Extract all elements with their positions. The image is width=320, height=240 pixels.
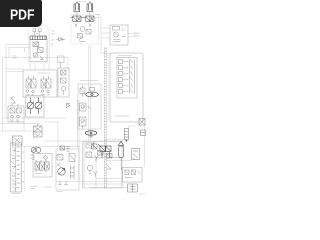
wire	[96, 158, 122, 188]
marks	[31, 155, 35, 160]
swing valve box	[33, 154, 52, 178]
wire	[128, 34, 137, 37]
pressure switch	[132, 149, 140, 160]
marks	[57, 163, 61, 168]
dashed edge	[107, 53, 109, 122]
valve	[86, 152, 120, 158]
breaker unit	[125, 126, 136, 142]
check valve	[67, 104, 71, 108]
valve	[69, 154, 75, 162]
valve	[80, 85, 85, 97]
wire	[104, 139, 126, 141]
label	[38, 72, 50, 74]
svg-text:PDF: PDF	[10, 6, 35, 23]
label	[13, 48, 25, 58]
valve	[60, 146, 70, 151]
valve stack	[12, 146, 25, 190]
wire	[56, 179, 128, 188]
wire	[6, 69, 23, 72]
valve	[86, 143, 94, 148]
pump	[61, 86, 65, 94]
pump	[35, 98, 42, 114]
valve section	[26, 76, 36, 95]
valve	[10, 104, 22, 122]
wire stubs	[30, 64, 49, 71]
valve	[98, 151, 104, 156]
solenoid manifold inner box	[117, 58, 137, 99]
main pump box	[26, 96, 45, 118]
label	[134, 33, 140, 35]
regulator	[11, 97, 16, 104]
marks	[52, 31, 55, 46]
pump	[80, 117, 87, 129]
valve pair	[98, 144, 111, 158]
solenoid valve	[81, 16, 94, 22]
wire	[78, 100, 80, 180]
label	[78, 2, 101, 15]
wire	[2, 58, 4, 132]
valve	[139, 119, 145, 126]
wire	[89, 46, 91, 141]
solenoid manifold outer box	[110, 53, 143, 122]
relief valve column	[58, 68, 69, 97]
valve	[38, 48, 44, 53]
wire	[5, 45, 7, 119]
bus ladder	[104, 47, 106, 189]
valve	[107, 154, 113, 159]
label	[115, 115, 129, 117]
wire	[22, 146, 80, 148]
valve	[33, 42, 39, 47]
wire	[1, 118, 67, 137]
top-right valve unit	[110, 25, 128, 45]
valve row	[35, 156, 49, 172]
solenoid stack	[119, 60, 135, 94]
wire	[3, 58, 69, 71]
filter	[34, 124, 43, 138]
terminal box	[123, 168, 143, 183]
pump unit box	[30, 40, 47, 62]
label	[57, 191, 63, 193]
wire	[9, 48, 30, 58]
pilot pump box	[8, 106, 24, 122]
gear pump pair	[31, 147, 41, 153]
valve section	[41, 76, 51, 95]
oil cooler box	[78, 84, 101, 129]
valve	[57, 155, 63, 161]
fan impeller	[86, 88, 99, 97]
dashed enclosure	[29, 26, 49, 63]
valve	[92, 142, 98, 150]
wire	[6, 44, 30, 46]
tank symbol	[58, 181, 67, 185]
valve	[61, 78, 67, 83]
dashed line	[49, 28, 51, 64]
motor	[58, 168, 65, 175]
pump	[80, 103, 91, 111]
label	[12, 193, 20, 195]
wire	[44, 140, 130, 142]
label	[118, 55, 132, 57]
tank unit	[128, 184, 138, 192]
label	[30, 174, 43, 189]
wire	[44, 122, 58, 147]
pump	[33, 53, 43, 60]
junction box	[58, 56, 65, 68]
solenoid valve	[71, 16, 81, 22]
control valve bank	[23, 70, 57, 97]
wire	[95, 18, 111, 54]
relief manifold	[11, 143, 22, 192]
cylinder	[87, 2, 93, 16]
valve internals	[113, 27, 126, 42]
arrow marks	[94, 155, 99, 162]
cylinder	[74, 2, 80, 16]
travel motor box	[56, 149, 79, 190]
dashed enclosure	[71, 15, 99, 45]
fan impeller	[85, 131, 97, 138]
rotary joint box	[83, 142, 123, 189]
marks	[93, 165, 112, 177]
pilot valve cluster	[75, 24, 92, 42]
check valve	[57, 38, 66, 42]
cylinder	[71, 165, 75, 179]
manifold	[30, 36, 47, 40]
label	[80, 80, 98, 82]
small comp	[141, 130, 146, 136]
accumulator	[118, 141, 124, 170]
gauge	[33, 29, 41, 36]
label	[44, 187, 145, 194]
terminal marks	[125, 170, 140, 178]
wire	[106, 160, 132, 162]
PDF badge	[0, 0, 42, 27]
motor	[87, 165, 92, 174]
label	[31, 24, 36, 26]
pump	[27, 98, 34, 114]
wire	[101, 28, 110, 38]
valve	[61, 70, 67, 75]
dashed line	[24, 146, 26, 192]
wire	[144, 126, 146, 168]
shutoff valve	[13, 136, 23, 145]
